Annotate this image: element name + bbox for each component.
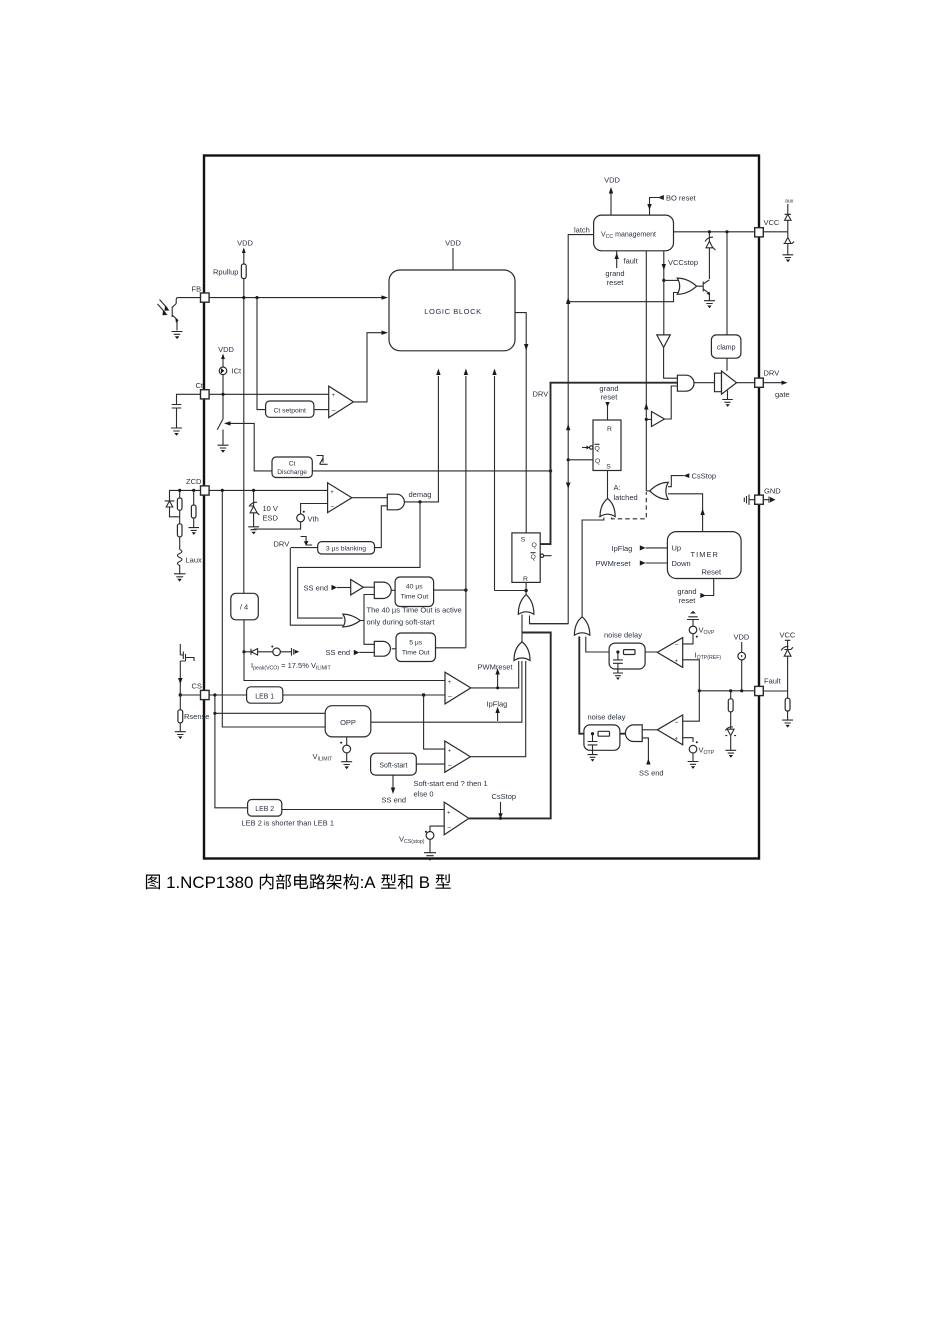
driver DRV output stage (715, 371, 755, 407)
svg-text:IpFlag: IpFlag (487, 700, 508, 709)
wire latch line into OR upper (530, 616, 568, 624)
svg-text:A:: A: (614, 483, 621, 492)
current source ICt (219, 367, 242, 420)
wire S from latched OR (607, 471, 609, 499)
source VCS(stop) (399, 826, 444, 861)
caption figure title (146, 873, 451, 892)
wire LEB2 to CsStop comparator (282, 809, 444, 811)
svg-text:Up: Up (672, 544, 682, 553)
wire FB line to LOGIC BLOCK (209, 295, 388, 299)
wire CS branch to OPP (213, 695, 325, 715)
svg-text:Reset: Reset (702, 568, 723, 577)
box TIMER (667, 532, 741, 579)
OR gate VCC discharge (568, 278, 696, 302)
svg-text:VCCstop: VCCstop (668, 258, 698, 267)
wire demag loop to 40us OR (298, 502, 420, 618)
wire demag output to LOGIC BLOCK (405, 369, 441, 504)
zener 10V ESD (248, 490, 278, 534)
svg-text:SS end: SS end (639, 769, 664, 778)
svg-text:Laux: Laux (186, 556, 203, 565)
box /4 divider (231, 593, 258, 620)
svg-text:GND: GND (764, 487, 781, 496)
svg-text:Time Out: Time Out (402, 650, 430, 657)
svg-text:5 µs: 5 µs (409, 640, 423, 647)
wire latch output (530, 226, 594, 624)
op-amp OVP comparator (657, 638, 682, 668)
wire VCC rail from Vcc management to pin (674, 230, 755, 233)
source Vth (254, 504, 328, 530)
svg-text::A: :A (360, 873, 380, 892)
wire CS branch to Ip comparator (424, 695, 445, 749)
svg-text:40 µs: 40 µs (406, 584, 423, 591)
op-amp OTP comparator (657, 715, 682, 745)
svg-text:LEB 2: LEB 2 (255, 806, 274, 813)
svg-text:Q: Q (595, 446, 600, 453)
label IOTP(REF) and source (695, 633, 750, 691)
svg-text:Time Out: Time Out (400, 594, 428, 601)
pin CS (192, 682, 210, 700)
svg-text:LEB 2 is shorter than LEB 1: LEB 2 is shorter than LEB 1 (242, 819, 335, 828)
box Soft-start (371, 753, 445, 775)
OR gate OVP-OTP combine (574, 617, 589, 635)
svg-text:LOGIC BLOCK: LOGIC BLOCK (424, 307, 481, 316)
fault external: VCC TVS and pulldown resistor (763, 631, 796, 728)
svg-text:CS: CS (192, 682, 202, 691)
wire 3us blanking to demag AND (375, 506, 388, 548)
source VILIMIT below OPP (313, 737, 353, 769)
svg-text:Soft-start end ? then 1: Soft-start end ? then 1 (414, 779, 488, 788)
svg-text:reset: reset (601, 393, 619, 402)
wire PWMreset input to TIMER (596, 559, 668, 568)
wire OVP path into OR right input (586, 637, 658, 653)
svg-text:VDD: VDD (218, 345, 234, 354)
svg-text:+: + (330, 490, 334, 496)
svg-text:Q: Q (531, 554, 536, 561)
svg-text:aux: aux (785, 199, 794, 205)
wire OTP path into OR left input (579, 637, 625, 734)
svg-text:+: + (675, 737, 679, 743)
BO reset input (647, 194, 696, 216)
OR gate latch reset upper (518, 591, 534, 615)
svg-text:Rpullup: Rpullup (213, 268, 238, 277)
VDD label at ICt (218, 345, 234, 367)
svg-text:fault: fault (624, 257, 639, 266)
ZCD external network: diode, resistors, Laux (165, 489, 202, 582)
svg-text:SS end: SS end (304, 583, 329, 592)
OR gate A latched (600, 483, 638, 517)
DRV gate output arrow (763, 381, 789, 400)
svg-text:reset: reset (607, 278, 625, 287)
wire fault line to pin (698, 689, 755, 692)
VDD rail label for Rpullup (237, 239, 253, 265)
svg-text:ESD: ESD (263, 514, 279, 523)
op-amp CsStop comparator (444, 802, 469, 835)
OR gate latch-off (CsStop / timer) (646, 482, 668, 499)
svg-text:reset: reset (679, 596, 697, 605)
svg-text:noise delay: noise delay (588, 713, 626, 722)
note 40us timeout active text (367, 606, 462, 627)
LOGIC BLOCK (389, 270, 515, 351)
AND gate 40us timeout (374, 582, 391, 598)
pin ZCD (186, 477, 209, 495)
transistor VCC discharge (697, 280, 715, 308)
svg-text:S: S (606, 464, 611, 471)
svg-text:Down: Down (672, 559, 691, 568)
box 5us Time Out (392, 633, 436, 662)
wire Ct Discharge output to DRV latch line (312, 469, 552, 472)
source VOVP with top ground (683, 611, 715, 644)
wire S input from logic block (516, 313, 529, 533)
svg-text:DRV: DRV (274, 540, 290, 549)
OR gate soft-start timeout select (343, 595, 375, 645)
box Vcc management (594, 215, 674, 251)
Ct timing capacitor to ground (171, 394, 201, 436)
svg-text:gate: gate (775, 390, 790, 399)
pin VCC (755, 218, 780, 237)
svg-text:CsStop: CsStop (492, 792, 517, 801)
svg-text:Ct: Ct (289, 461, 296, 468)
svg-text:Soft-start: Soft-start (379, 762, 407, 769)
svg-text:SS end: SS end (382, 796, 407, 805)
box 3us blanking (318, 542, 375, 554)
AND gate OTP with SS end (625, 725, 663, 778)
AND gate 5us timeout (326, 641, 391, 657)
AND gate DRV enable (677, 375, 714, 391)
svg-text:grand: grand (605, 269, 624, 278)
wire OVP comparator plus input to fault line (683, 660, 700, 691)
wire 40us output to LOGIC BLOCK line (434, 369, 469, 648)
svg-text:10 V: 10 V (263, 504, 278, 513)
svg-text:1.NCP1380: 1.NCP1380 (161, 873, 258, 892)
svg-text:FB: FB (192, 285, 202, 294)
wire OVP-OTP OR to latched OR (582, 518, 604, 618)
aux diode network at VCC pin (763, 199, 794, 263)
Ct setpoint box (266, 401, 314, 417)
wire Ip comparator output (470, 661, 525, 757)
box OPP (325, 706, 371, 737)
resistor and zener to ground below fault line (725, 691, 736, 758)
svg-text:SS end: SS end (326, 648, 351, 657)
GND pin ground symbol and arrow (744, 495, 775, 505)
inverter VCCstop (657, 335, 678, 378)
wire /4 output to PWM comparator (242, 620, 445, 681)
op-amp Ip limit comparator (445, 741, 471, 772)
svg-text:else 0: else 0 (414, 790, 434, 799)
pin FB (192, 285, 210, 303)
svg-text:S: S (521, 537, 526, 544)
buffer latched fault to DRV AND (645, 386, 678, 427)
wire Q output to DRV and gate (533, 383, 678, 544)
flip-flop fault latch (568, 420, 621, 471)
svg-text:ZCD: ZCD (186, 477, 202, 486)
svg-text:VDD: VDD (604, 176, 620, 185)
switch Ct discharge (217, 419, 272, 471)
note soft-start end (414, 779, 488, 799)
resistor Rpullup (213, 264, 246, 298)
svg-text:LEB 1: LEB 1 (255, 693, 274, 700)
fault stub below Vcc management (605, 251, 638, 287)
svg-text:Rsense: Rsense (184, 712, 209, 721)
wire latch-off OR up to Vcc management (644, 251, 648, 491)
svg-text:BO reset: BO reset (666, 194, 697, 203)
svg-text:only during soft-start: only during soft-start (367, 618, 436, 627)
svg-text:DRV: DRV (533, 390, 549, 399)
pin Fault (755, 677, 782, 696)
wire ZCD branch to OPP (222, 490, 325, 727)
grand reset to TIMER Reset (677, 579, 713, 606)
svg-text:latch: latch (574, 226, 590, 235)
svg-text:ICt: ICt (232, 367, 243, 376)
wire OPP output / IpFlag tap (371, 661, 522, 722)
svg-text:+: + (448, 749, 452, 755)
box noise delay upper (604, 631, 645, 681)
svg-text:CsStop: CsStop (692, 472, 717, 481)
external MOSFET and Rsense at CS pin (175, 644, 210, 739)
pin GND (755, 487, 782, 505)
CsStop input tap (668, 472, 716, 487)
VDD arrow at Vcc management (604, 176, 620, 216)
box 40us Time Out (391, 577, 433, 607)
wire Ct comparator output to LOGIC BLOCK (353, 331, 388, 402)
svg-text:noise delay: noise delay (604, 631, 642, 640)
zener at VCC discharge transistor (705, 232, 715, 279)
current source Ipeak(VCO) with diode (244, 646, 331, 672)
wire 5us output joins logic line (436, 647, 466, 649)
box LEB 2 (248, 800, 282, 817)
svg-text:+: + (448, 680, 452, 686)
svg-text:Ct setpoint: Ct setpoint (273, 407, 306, 414)
wire LEB1 output to PWM comparator (283, 693, 445, 696)
svg-text:−: − (448, 763, 452, 770)
svg-text:3 µs blanking: 3 µs blanking (326, 546, 366, 553)
svg-text:VDD: VDD (445, 239, 461, 248)
box noise delay lower (584, 713, 626, 762)
svg-text:VDD: VDD (734, 633, 750, 642)
box LEB 1 (247, 687, 283, 703)
svg-text:Q: Q (532, 542, 537, 549)
svg-text:grand: grand (677, 587, 696, 596)
svg-text:VCC: VCC (780, 631, 796, 640)
svg-text:PWMreset: PWMreset (596, 559, 632, 568)
svg-text:demag: demag (409, 490, 432, 499)
svg-text:PWMreset: PWMreset (478, 662, 514, 671)
svg-text:R: R (607, 426, 612, 433)
wire CS line to LEB1 (209, 693, 247, 696)
pin DRV (755, 369, 780, 388)
arrow SS end below Soft-start (382, 775, 407, 804)
svg-text:Q: Q (595, 458, 600, 465)
AND gate demag (352, 494, 405, 510)
op-amp demag comparator (328, 483, 352, 513)
svg-text:Ct: Ct (196, 381, 204, 390)
svg-text:Discharge: Discharge (277, 469, 307, 476)
svg-text:−: − (675, 642, 679, 649)
wire R node to logic block (492, 369, 528, 593)
svg-text:The 40 µs Time Out is active: The 40 µs Time Out is active (367, 606, 462, 615)
OR gate PWM reset combine lower (514, 615, 530, 661)
op-amp Ct comparator (314, 386, 354, 418)
wire CsStop output (469, 633, 551, 820)
svg-text:DRV: DRV (764, 369, 780, 378)
svg-text:latched: latched (614, 493, 638, 502)
wire CS branch to LEB2 (215, 713, 248, 808)
wire PWMreset output (471, 661, 519, 689)
svg-text:−: − (330, 504, 334, 511)
svg-text:VDD: VDD (237, 239, 253, 248)
svg-text:B: B (414, 873, 435, 892)
grand reset arrow to R of fault latch (599, 384, 618, 420)
IC boundary box (204, 156, 759, 859)
svg-text:clamp: clamp (717, 345, 736, 352)
wire DRV branch to 40us OR (290, 548, 343, 626)
svg-text:−: − (332, 408, 336, 415)
svg-text:TIMER: TIMER (691, 550, 720, 559)
svg-text:−: − (447, 825, 451, 832)
wire IpFlag input to TIMER (612, 544, 668, 553)
svg-text:−: − (675, 720, 679, 727)
wire Ct line to comparator (209, 393, 329, 396)
svg-text:IpFlag: IpFlag (612, 544, 633, 553)
svg-text:OPP: OPP (340, 718, 356, 727)
Ct Discharge box with pulse glyph (272, 456, 328, 478)
buffer SS end (40us path) (304, 580, 375, 595)
DRV edge-trigger glyph and wire to 3us blanking (274, 537, 318, 549)
wire ZCD line into demag comparator (209, 489, 328, 492)
note LEB2 shorter (242, 819, 335, 828)
svg-text:+: + (447, 810, 451, 816)
svg-text:Vth: Vth (308, 515, 319, 524)
svg-text:/ 4: / 4 (240, 603, 248, 612)
svg-text:Fault: Fault (764, 677, 782, 686)
box clamp (711, 232, 741, 371)
wire Rpullup line down to /4 (243, 298, 245, 594)
svg-text:R: R (523, 576, 528, 583)
wire VCCstop line down (662, 251, 698, 335)
svg-text:VCC: VCC (764, 218, 780, 227)
flip-flop DRV latch (512, 533, 552, 591)
wire OTP comparator minus input to fault line (683, 691, 700, 721)
wire timer output to latch-off OR (668, 494, 705, 532)
pin Ct (196, 381, 210, 399)
source VOTP (683, 738, 715, 769)
optocoupler feedback at FB pin (158, 298, 201, 339)
svg-text:+: + (675, 659, 679, 665)
op-amp PWM comparator (445, 672, 471, 704)
wire FB branch down to Ct setpoint (257, 298, 266, 410)
VDD label at LOGIC BLOCK (445, 239, 461, 271)
svg-text:−: − (448, 694, 452, 701)
svg-text:+: + (332, 393, 336, 399)
dashed option link A-version (612, 492, 647, 519)
